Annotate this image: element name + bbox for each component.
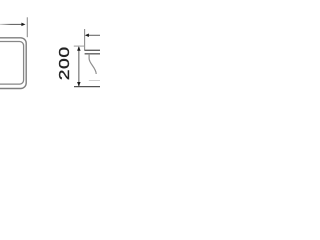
svg-text:200: 200 (55, 46, 72, 80)
